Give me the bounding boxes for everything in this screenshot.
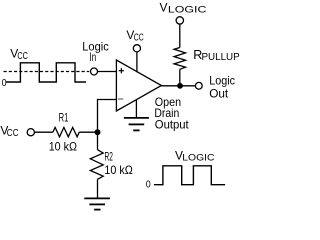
- svg-text:R1: R1: [59, 110, 69, 124]
- label VCC (R1 source): [0, 124, 18, 140]
- label Logic Out: [209, 73, 235, 100]
- resistor R1: [53, 127, 79, 136]
- ground (comparator): [124, 118, 149, 130]
- wire comparator to ground: [135, 100, 137, 118]
- svg-text:0: 0: [2, 78, 7, 89]
- svg-text:CC: CC: [7, 128, 19, 139]
- svg-text:10 kΩ: 10 kΩ: [104, 163, 132, 177]
- label VLOGIC (pullup supply): [160, 0, 207, 15]
- junction R1 R2 node: [95, 129, 101, 135]
- junction output node: [177, 83, 183, 89]
- wire VCC to R1: [34, 131, 53, 133]
- label VLOGIC (output waveform): [175, 148, 215, 163]
- svg-text:CC: CC: [134, 32, 144, 43]
- wire node to - input: [98, 100, 117, 133]
- svg-text:Out: Out: [209, 86, 229, 100]
- terminal Logic In: [91, 68, 98, 75]
- svg-text:PULLUP: PULLUP: [202, 52, 241, 63]
- svg-text:In: In: [90, 50, 97, 64]
- ground (R2): [84, 198, 110, 209]
- terminal VLOGIC: [176, 17, 183, 24]
- wire Logic In to + input: [98, 71, 117, 73]
- wire R1 to node: [79, 131, 97, 133]
- comparator U1: [116, 60, 161, 111]
- wire R2 to ground: [97, 179, 99, 198]
- label VCC (input waveform): [10, 47, 28, 63]
- wire node to R2: [97, 132, 99, 149]
- input threshold dashed line: [4, 71, 90, 73]
- output wire: [161, 85, 195, 87]
- svg-text:0: 0: [146, 180, 151, 191]
- svg-text:10 kΩ: 10 kΩ: [49, 140, 77, 154]
- resistor R2: [90, 150, 103, 180]
- wire VLOGIC to RPULLUP: [179, 24, 181, 47]
- svg-text:Output: Output: [155, 117, 190, 131]
- label Open Drain Output: [154, 95, 189, 132]
- svg-text:LOGIC: LOGIC: [182, 152, 214, 163]
- svg-text:V: V: [160, 0, 168, 14]
- label RPULLUP: [193, 48, 240, 63]
- wire RPULLUP to output node: [179, 69, 181, 86]
- svg-text:CC: CC: [17, 51, 28, 62]
- svg-text:R2: R2: [105, 150, 114, 164]
- output square wave: [154, 166, 225, 185]
- svg-text:LOGIC: LOGIC: [168, 4, 207, 15]
- + input marker: [119, 68, 124, 73]
- label VCC (comparator supply): [126, 28, 143, 43]
- terminal Logic Out: [195, 82, 202, 89]
- input square wave: [6, 63, 86, 82]
- wire VCC to comparator: [136, 52, 138, 72]
- label Logic In: [82, 39, 109, 64]
- svg-text:Logic: Logic: [209, 73, 235, 87]
- resistor RPULLUP: [174, 48, 185, 70]
- terminal VCC R1: [27, 129, 34, 136]
- terminal VCC comparator: [133, 45, 140, 52]
- - input marker: [118, 98, 123, 100]
